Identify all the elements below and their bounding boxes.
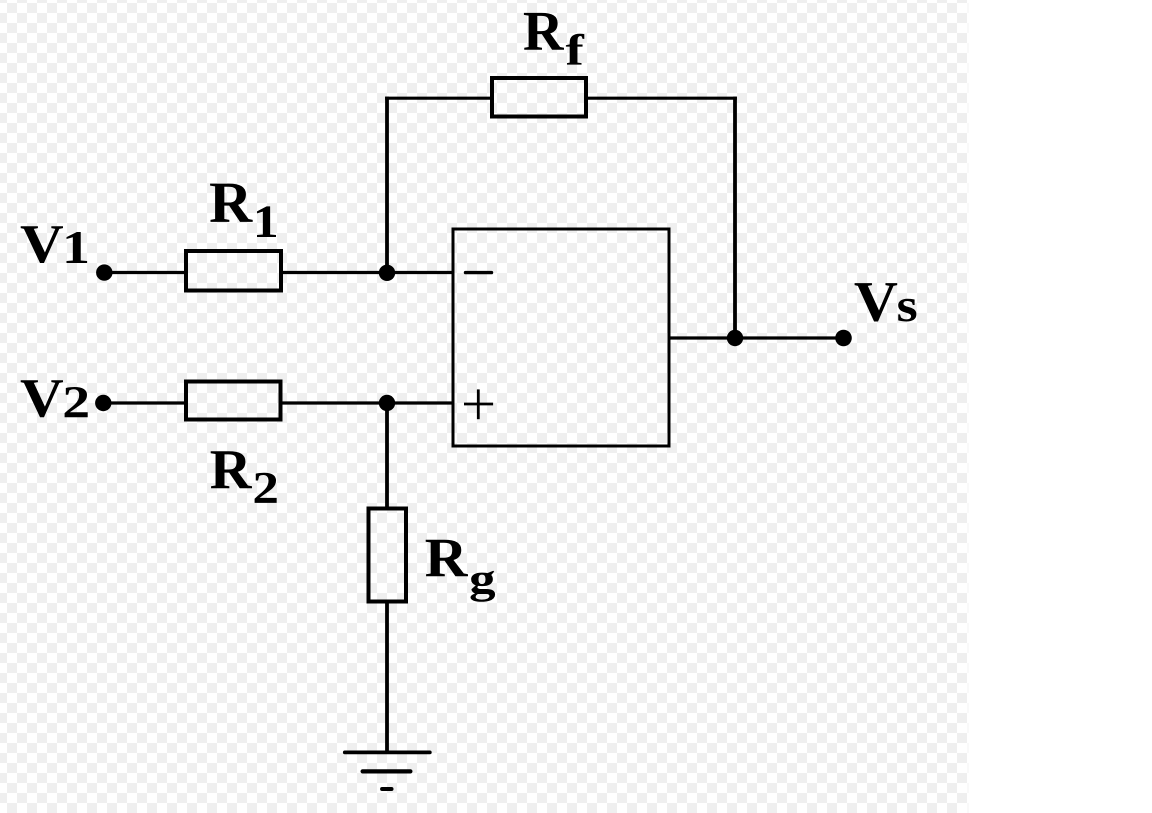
label V1 bbox=[21, 226, 87, 263]
junction inverting node bbox=[379, 265, 395, 281]
label Rg bbox=[426, 540, 495, 602]
op-amp non-inverting pin label plus bbox=[464, 389, 493, 419]
node V1 terminal dot bbox=[96, 264, 112, 280]
node V2 terminal dot bbox=[95, 395, 111, 411]
label R1 bbox=[210, 184, 276, 237]
junction non-inverting node bbox=[379, 395, 395, 411]
wire junction to Rg bbox=[385, 403, 389, 508]
wire V1 to R1 bbox=[104, 271, 188, 274]
label V2 bbox=[21, 380, 88, 417]
wire feedback riser to Rf bbox=[385, 97, 389, 273]
resistor Rf bbox=[492, 78, 586, 117]
wire output bbox=[669, 336, 844, 339]
node Vs terminal dot bbox=[835, 330, 852, 347]
resistor R2 bbox=[186, 382, 281, 420]
resistor R1 bbox=[186, 251, 281, 291]
wire V2 to R2 bbox=[103, 401, 188, 404]
label Vs bbox=[855, 283, 917, 321]
op-amp inverting pin label minus bbox=[466, 271, 492, 274]
wire Rf to output node bbox=[586, 97, 737, 100]
label R2 bbox=[211, 451, 277, 503]
junction output node bbox=[727, 330, 743, 346]
op-amp U1 bbox=[453, 229, 669, 446]
resistor Rg bbox=[369, 509, 407, 602]
ground bbox=[345, 752, 430, 789]
wire R2 to non-inverting input bbox=[281, 401, 454, 404]
label Rf bbox=[524, 13, 584, 65]
wire Rg to ground bbox=[385, 602, 389, 752]
wire R1 to inverting input bbox=[281, 271, 453, 274]
